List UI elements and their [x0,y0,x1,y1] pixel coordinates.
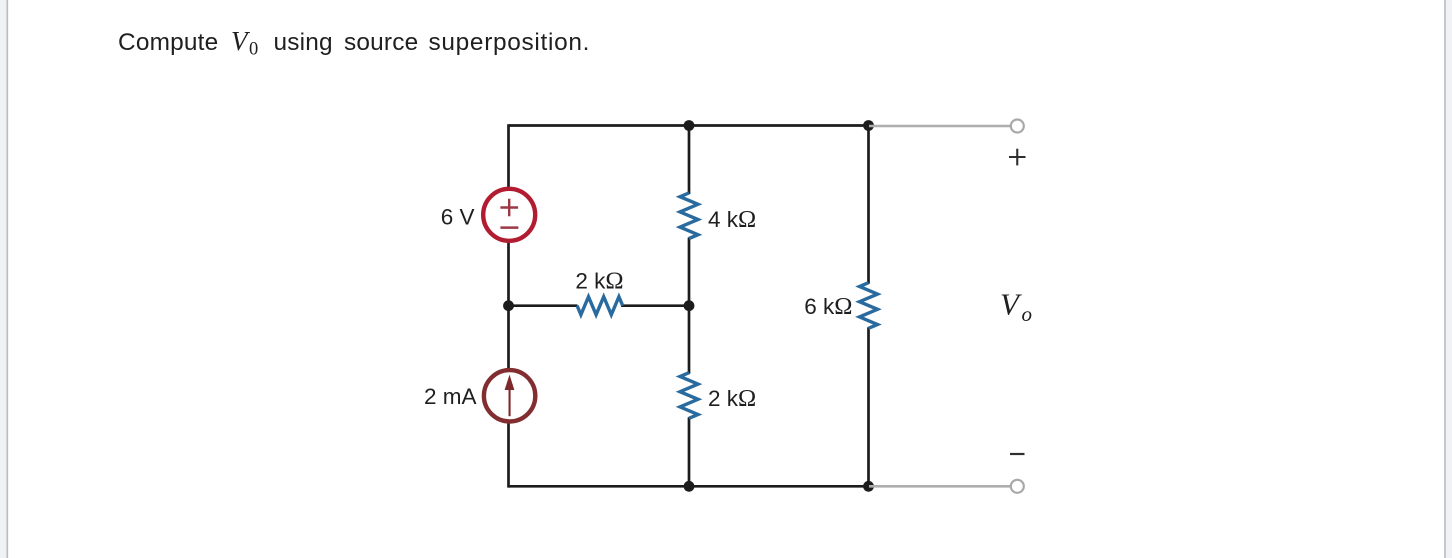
junction dot node F bottom right [863,481,874,492]
wire top rail [509,124,869,127]
junction dot node E bottom middle [684,481,695,492]
wire middle branch upper segment [688,124,691,194]
resistor R2 4kOhm vertical zigzag [680,193,698,239]
wire left branch upper segment [507,124,510,189]
voltage source V1 minus sign [500,226,518,229]
svg-text:using: using [274,29,333,56]
terminal top open circle [1011,120,1024,133]
svg-text:V: V [231,26,251,56]
wire right branch upper segment [867,124,870,284]
svg-text:source: source [344,29,418,56]
resistor R4 6kOhm vertical zigzag [860,283,878,329]
wire gray output bottom lead [869,485,1010,488]
current source I1 2mA circle [484,370,535,421]
svg-text:6 V: 6 V [441,205,475,230]
terminal bottom open circle [1011,480,1024,493]
svg-text:2 mA: 2 mA [424,384,477,409]
junction dot node B top right [863,120,874,131]
wire gray output top lead [869,125,1010,128]
junction dot node A top middle [684,120,695,131]
wire left branch lower segment [507,422,510,488]
label Vo output voltage [1000,287,1032,327]
resistor R1 2kOhm horizontal zigzag [577,297,623,315]
svg-text:V: V [1000,287,1022,322]
svg-text:4 kΩ: 4 kΩ [708,206,756,233]
page left border line [6,0,8,558]
wire middle rail left segment [509,304,578,307]
wire bottom rail [509,485,869,488]
voltage source V1 6V circle [483,189,535,241]
resistor R3 2kOhm vertical zigzag [680,373,698,419]
output minus sign [1010,453,1025,455]
wire middle branch center segment [688,238,691,374]
title: Compute V0 using source superposition. [118,26,590,60]
svg-text:Compute: Compute [118,29,218,56]
svg-text:2 kΩ: 2 kΩ [575,268,623,295]
svg-text:superposition.: superposition. [429,29,591,56]
svg-text:0: 0 [249,40,258,60]
voltage source V1 plus sign [500,199,518,217]
svg-text:2 kΩ: 2 kΩ [708,385,756,412]
svg-text:6 kΩ: 6 kΩ [804,293,852,320]
page right margin strip [1446,0,1452,558]
output plus sign [1009,149,1026,166]
page right border line [1444,0,1446,558]
junction dot node D mid middle [684,300,695,311]
svg-text:o: o [1022,302,1033,326]
current source I1 arrow [505,375,515,417]
page left margin strip [0,0,7,558]
junction dot node C mid left [503,300,514,311]
wire left branch middle segment [507,241,510,370]
wire middle rail right segment [621,304,689,307]
wire right branch lower segment [867,327,870,487]
wire middle branch lower segment [688,417,691,487]
